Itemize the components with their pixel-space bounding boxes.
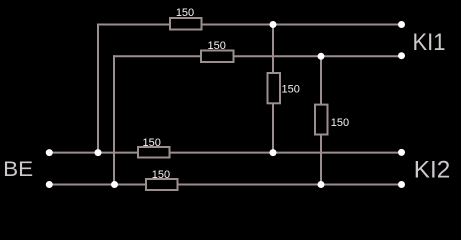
svg-text:KI1: KI1 bbox=[413, 29, 446, 56]
wire V4 vertical through R6 (W2 to W4) bbox=[320, 56, 322, 184]
wire V1 left vertical (W1 to W3) bbox=[97, 24, 99, 153]
resistor R5 bbox=[268, 73, 281, 103]
junction V4-W2 bbox=[318, 53, 325, 60]
node KI2 terminal 1 bbox=[398, 149, 405, 156]
resistor R6 bbox=[315, 105, 328, 135]
node KI2 terminal 2 bbox=[398, 181, 405, 188]
wire V3 vertical through R5 (W1 to W3) bbox=[272, 25, 274, 153]
svg-text:150: 150 bbox=[282, 83, 300, 95]
node KI1 terminal 1 bbox=[398, 21, 405, 28]
wire W1 top horizontal to KI1 bbox=[97, 24, 402, 26]
svg-text:150: 150 bbox=[176, 7, 194, 19]
svg-text:KI2: KI2 bbox=[414, 157, 451, 184]
junction V2-W4 bbox=[111, 181, 118, 188]
node BE terminal 1 bbox=[46, 149, 53, 156]
svg-text:150: 150 bbox=[143, 137, 161, 149]
svg-text:150: 150 bbox=[152, 169, 170, 181]
junction V3-W1 bbox=[270, 21, 277, 28]
resistor R3 bbox=[138, 147, 170, 158]
resistor R2 bbox=[201, 51, 234, 63]
resistor R1 bbox=[170, 18, 202, 30]
junction V1-W3 bbox=[95, 149, 102, 156]
svg-text:150: 150 bbox=[208, 40, 226, 52]
wire V2 left vertical (W2 to W4) bbox=[113, 55, 115, 184]
junction V4-W4 bbox=[318, 181, 325, 188]
node KI1 terminal 2 bbox=[398, 52, 405, 59]
resistor R4 bbox=[146, 179, 178, 190]
wire W2 second horizontal to KI1 bbox=[113, 55, 402, 57]
wire W3 third horizontal from BE to KI2 bbox=[49, 152, 402, 154]
svg-text:150: 150 bbox=[331, 117, 349, 129]
node BE terminal 2 bbox=[46, 181, 53, 188]
wire W4 bottom horizontal from BE to KI2 bbox=[49, 184, 402, 186]
svg-text:BE: BE bbox=[3, 157, 33, 181]
junction V3-W3 bbox=[270, 149, 277, 156]
